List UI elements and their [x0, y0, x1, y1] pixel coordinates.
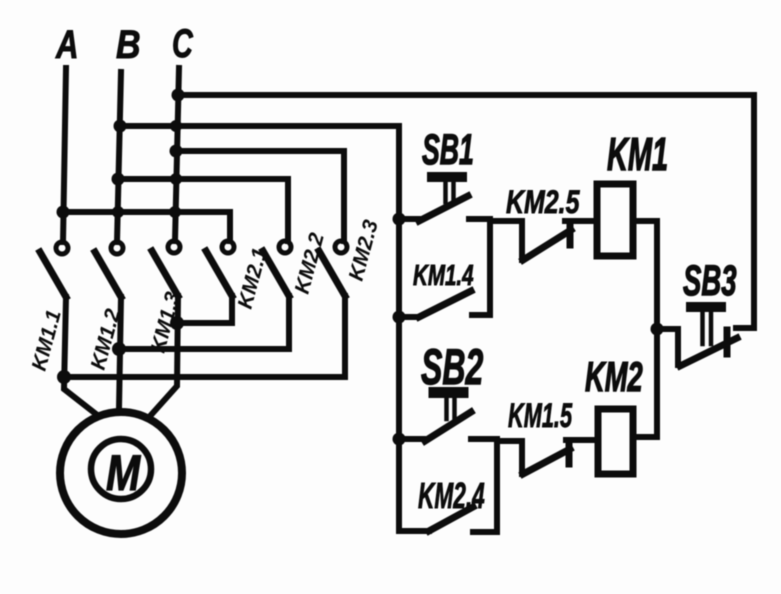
wire SB1/KM1.4 parallel vertical [472, 219, 490, 315]
svg-text:KM2.3: KM2.3 [345, 217, 383, 283]
node dot crossing C y212 [169, 206, 181, 218]
wire KM2 coil right [633, 434, 657, 440]
contact KM1.1 [28, 242, 68, 373]
svg-text:KM1: KM1 [607, 129, 668, 180]
node dot rail KM1.4 [393, 311, 406, 324]
contact KM1.2 [87, 242, 125, 372]
button SB2 contact blade [425, 412, 471, 441]
node dot crossing C y126 [170, 120, 182, 132]
wire KM1.2 bottom to motor [119, 297, 121, 409]
wire B to control rail [120, 123, 399, 129]
contact KM2.1 [206, 241, 272, 311]
wire join to SB3 [657, 329, 678, 365]
wire phase A vertical [63, 68, 66, 242]
wire C to right rail [177, 92, 754, 98]
wire SB2/KM2.4 parallel vertical [473, 439, 497, 532]
node dot km12 bottom [112, 342, 126, 356]
svg-text:SB3: SB3 [683, 256, 737, 305]
wire phase B vertical [117, 72, 121, 242]
svg-text:KM2.4: KM2.4 [418, 477, 485, 516]
contact KM1.5 stop tick [566, 441, 573, 464]
svg-text:SB2: SB2 [421, 339, 483, 395]
wire C to KM2.3 top [176, 151, 344, 241]
node dot crossing C y179 [170, 173, 182, 185]
svg-text:KM2: KM2 [585, 353, 643, 400]
button SB3 stop tick [724, 330, 731, 354]
svg-text:KM1.1: KM1.1 [28, 308, 66, 374]
node dot rail SB1 [393, 213, 406, 226]
node dot rail SB2 [393, 433, 406, 446]
svg-text:KM1.5: KM1.5 [508, 397, 573, 435]
wire rail to SB1 [399, 216, 419, 222]
svg-text:KM1.4: KM1.4 [413, 260, 474, 292]
button SB2 actuator [434, 393, 463, 420]
node dot km13 bottom [170, 316, 184, 330]
coil KM1 [597, 184, 633, 256]
motor M inner circle [91, 439, 151, 499]
contact KM2.2 [263, 230, 329, 296]
wire KM2.3 bottom cross-link [66, 296, 345, 377]
wire rail to KM1.4 [399, 314, 418, 320]
svg-text:A: A [55, 22, 78, 67]
contact KM2.5 stop tick [567, 222, 574, 245]
wire KM1.3 bottom to motor [151, 296, 178, 415]
button SB1 contact blade [419, 196, 468, 221]
node dot C km23 [170, 145, 183, 158]
node dot B km22 [112, 173, 125, 186]
wire rail to SB2 [399, 436, 423, 442]
svg-text:C: C [172, 21, 193, 66]
wire SB2 right [471, 436, 497, 442]
wire KM2.5 to KM1 coil [565, 218, 597, 224]
svg-text:SB1: SB1 [422, 126, 474, 174]
svg-text:M: M [106, 445, 141, 501]
coil KM2 [598, 409, 633, 474]
contact KM1.4 blade [419, 291, 471, 317]
node dot coils join [651, 323, 664, 336]
button SB3 contact blade [680, 338, 737, 366]
wire SB1 to KM2.5 [490, 221, 522, 260]
wire rail bottom to KM2.4 [399, 528, 429, 534]
button SB1 actuator [432, 177, 462, 202]
svg-text:KM2.5: KM2.5 [506, 185, 580, 221]
contact KM1.3 [147, 241, 185, 355]
wire B to KM2.2 top [118, 179, 288, 241]
wire SB2 to KM1.5 [497, 441, 522, 474]
wire KM1.1 bottom to motor [64, 297, 96, 414]
wire KM1 coil right [633, 218, 657, 224]
wire phase C vertical [175, 68, 179, 241]
contact KM1.5 blade [523, 449, 570, 474]
wire control left rail [396, 126, 402, 531]
wire coils join vertical [654, 221, 660, 437]
wire KM2.2 bottom cross-link [121, 296, 289, 349]
node dot crossing B y212 [112, 206, 124, 218]
wire KM1.5 to KM2 coil [566, 437, 598, 443]
motor M outer circle [60, 412, 182, 534]
wire right rail [751, 95, 757, 328]
svg-text:B: B [116, 21, 141, 66]
contact KM2.3 [319, 217, 383, 296]
node dot C top [172, 89, 185, 102]
contact KM2.5 blade [523, 230, 571, 260]
node dot B rail [114, 120, 127, 133]
wire KM2.1 bottom cross-link [180, 296, 232, 323]
contact KM2.4 blade [429, 507, 473, 531]
wire SB3 right to rail [736, 325, 754, 331]
wire SB1 right [469, 216, 490, 222]
node dot km11 bottom [57, 370, 71, 384]
button SB3 actuator [691, 307, 721, 344]
wire A to KM2.1 top [63, 212, 230, 241]
node dot A km21 [57, 206, 70, 219]
